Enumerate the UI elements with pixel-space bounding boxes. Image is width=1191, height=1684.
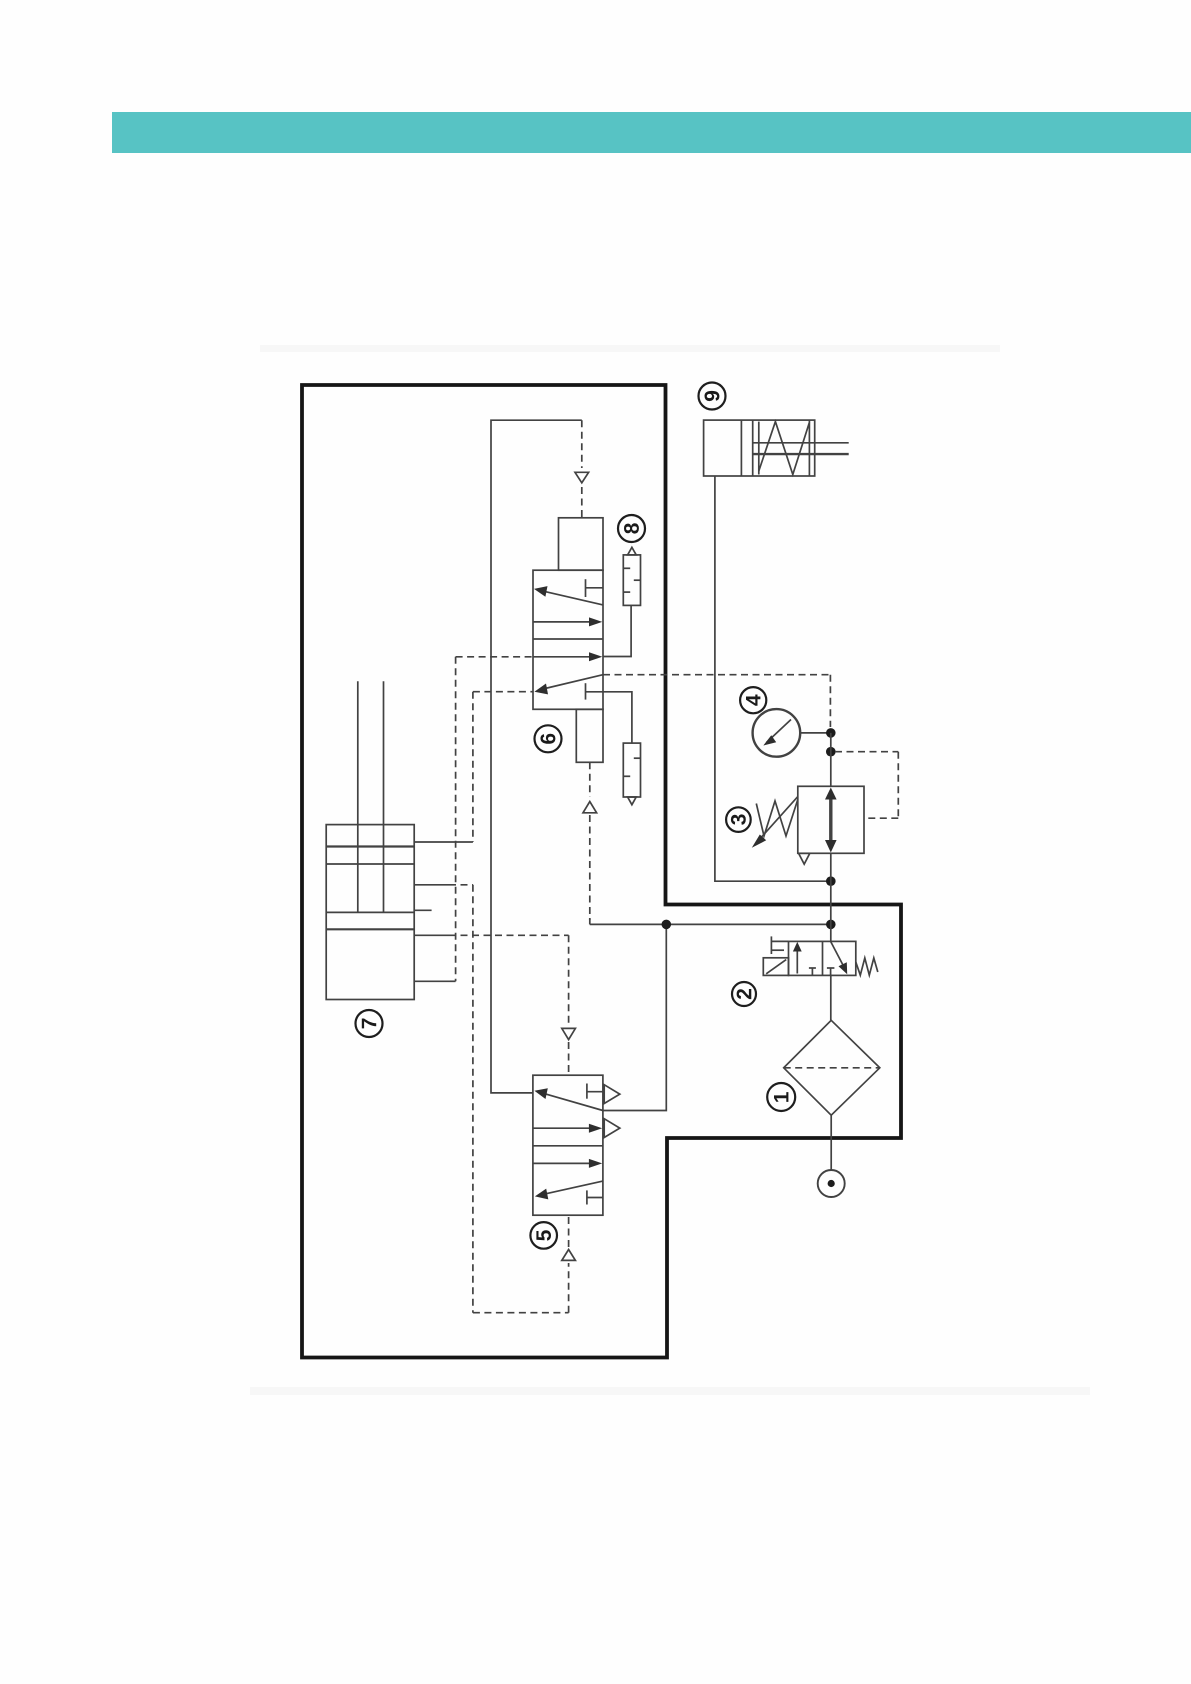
valve 2 return spring	[856, 958, 878, 975]
wire: dashed bottom pilot into valve 5	[562, 1215, 576, 1313]
cylinder 7 (tandem cylinder) body	[326, 825, 414, 1000]
regulator 3 vent triangle	[799, 853, 810, 864]
valve 6 internals: cell 2 crossed arrow	[534, 675, 603, 695]
node: junction dot left	[662, 920, 672, 930]
wire: valve 6 right port to flow control 8	[603, 605, 631, 656]
valve 5 internals: cell 1 crossed arrow	[534, 1088, 603, 1110]
node: junction dot right	[826, 920, 836, 930]
label 6 (valve 6)	[535, 725, 562, 752]
label 8 (flow control 8)	[618, 515, 645, 542]
valve 6 (5/2 pilot valve) body	[533, 570, 603, 709]
flow control 8 (upper exhaust throttle)	[623, 547, 640, 605]
teal header bar	[112, 112, 1191, 153]
cylinder 9 (single acting, spring return) body	[704, 420, 815, 476]
wire: dashed pilot from lower node up into valve 6 bottom pilot	[583, 762, 597, 924]
node: junction dot at pilot branch	[826, 747, 836, 757]
valve 5 internals: cell 1 straight arrow	[533, 1124, 602, 1133]
valve 6 internals: cell 1 blocked port T	[586, 579, 604, 597]
valve 6 internals: cell 2 blocked port T	[586, 683, 604, 699]
valve 5 internals: cell 1 blocked port T	[587, 1084, 603, 1099]
wire: filter to air source	[830, 1115, 832, 1170]
cylinder 9 piston rod	[753, 443, 849, 454]
valve 6 internals: cell 1 straight arrow	[533, 617, 602, 626]
wire: cylinder 9 port down to supply node	[715, 476, 831, 881]
label 5 (valve 5)	[530, 1222, 557, 1249]
node: junction dot at gauge tee	[826, 728, 836, 738]
label 4 (gauge 4)	[740, 687, 766, 713]
enclosure outline (thick machine boundary)	[302, 385, 901, 1358]
valve 2 override bracket	[771, 936, 788, 954]
valve 5 exhaust triangle (lower)	[604, 1119, 620, 1138]
label 1 (filter 1)	[767, 1083, 795, 1111]
valve 6 internals: cell 2 straight arrow	[533, 652, 602, 661]
valve 5 (5/2 pilot valve) body	[533, 1075, 603, 1215]
node: junction dot cylinder 9 branch	[826, 876, 836, 886]
wire: dashed pilot line D from cylinder port to valve 5 top pilot	[449, 934, 569, 936]
valve 5 internals: cell 2 straight arrow	[533, 1159, 602, 1168]
valve 2 solenoid	[763, 958, 788, 976]
wire: dashed external pilot loop to regulator	[835, 752, 898, 819]
wire: horizontal manifold line with junction to valve 2	[590, 923, 831, 925]
wire: pilot supply from valve 5 left port up and over to valve 6 pilot	[491, 420, 582, 1093]
wire: dashed pilot from valve 6 to regulator line	[603, 675, 830, 727]
regulator 3 flow arrow (double headed)	[825, 788, 837, 853]
cylinder 9 return spring	[759, 422, 810, 475]
valve 6 bottom pilot box	[576, 709, 603, 762]
wire: dashed pilot line B to valve 6 lower-left port	[473, 692, 533, 842]
wire: dashed pilot line C from cylinder mid port down to valve 5 bottom pilot	[449, 885, 569, 1313]
label 7 (cylinder 7)	[356, 1010, 383, 1037]
compressed air source	[818, 1170, 845, 1197]
wire: valve 6 right port to lower flow control	[603, 692, 632, 743]
regulator 3 spring	[756, 800, 798, 837]
valve 2 right cell exhaust diagonal	[831, 941, 848, 974]
flow control (lower exhaust throttle)	[623, 743, 640, 805]
pressure regulator 3 body	[798, 786, 864, 853]
wire: dashed top pilot into valve 5	[562, 935, 576, 1075]
cylinder 9 piston	[741, 420, 809, 476]
scan artifact band lower	[250, 1387, 1090, 1395]
pressure gauge 4	[753, 709, 831, 757]
wire: main supply vertical through regulator	[830, 733, 832, 942]
label 3 (regulator 3)	[726, 807, 751, 832]
valve 2 right cell blocked port	[827, 968, 835, 975]
cylinder 7 piston rods	[358, 681, 384, 912]
valve 5 exhaust triangle (upper)	[604, 1085, 620, 1104]
wire: dashed pilot line A to valve 6 upper-left port	[456, 657, 533, 982]
regulator 3 adjustment arrow	[752, 797, 798, 848]
wire: valve 2 to filter	[830, 975, 832, 1020]
valve 6 internals: cell 1 crossed arrow	[534, 586, 603, 605]
valve 2 left cell flow arrow	[793, 942, 802, 974]
valve 2 (3/2 solenoid valve) body	[789, 941, 856, 975]
valve 5 internals: cell 2 blocked port T	[587, 1190, 603, 1204]
label 2 (solenoid valve 2)	[732, 982, 756, 1006]
scan artifact band upper	[260, 345, 1000, 352]
valve 2 left cell blocked port	[809, 968, 816, 975]
wire: supply from node to valve 5 right port	[603, 924, 666, 1110]
valve 6 top pilot box	[559, 518, 604, 570]
filter 1 (diamond)	[784, 1020, 880, 1115]
valve 5 internals: cell 2 crossed arrow	[535, 1181, 603, 1199]
label 9 (cylinder 9)	[699, 383, 726, 410]
cylinder 7 port lines	[414, 842, 473, 981]
wire: dashed pilot drop into valve 6 top pilot box	[575, 420, 589, 518]
